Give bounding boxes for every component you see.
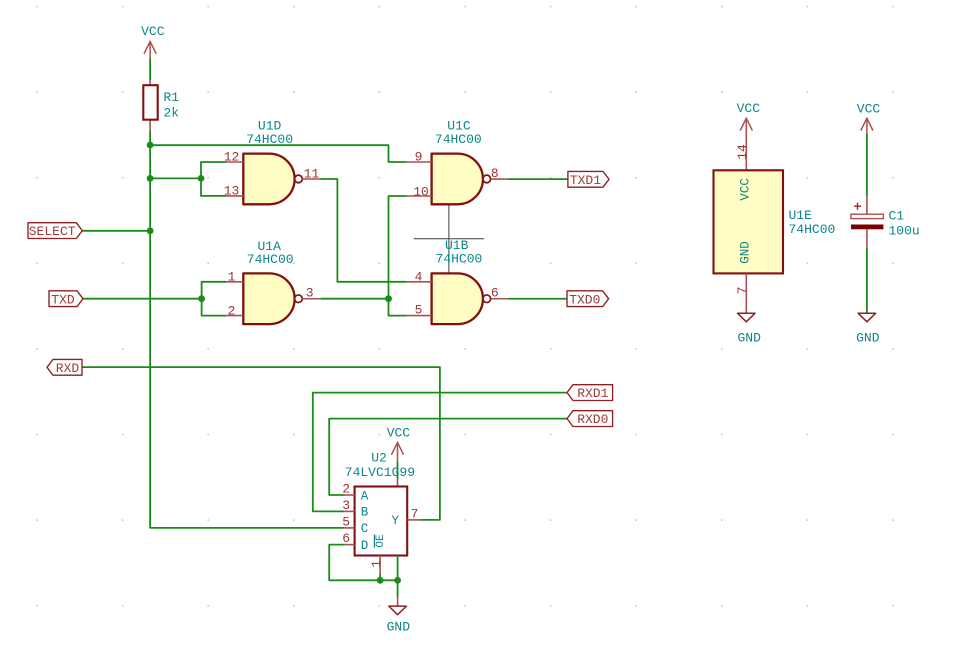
- svg-text:100u: 100u: [889, 224, 920, 239]
- junction U1D inputs tap: [147, 175, 154, 182]
- label SELECT: [28, 223, 82, 239]
- ground symbol GND (U1E): [737, 313, 761, 345]
- junction pull-up node: [147, 142, 154, 149]
- wire U1B output to TXD0: [508, 298, 567, 300]
- U2 pin 3 B: [342, 498, 369, 520]
- U1B pin 5: [406, 303, 431, 318]
- junction TXD: [198, 295, 205, 302]
- svg-text:1: 1: [369, 560, 384, 568]
- wire U1D output to U1B pin 4: [321, 179, 406, 282]
- svg-text:7: 7: [411, 507, 419, 522]
- svg-text:A: A: [361, 489, 369, 503]
- U1D pin 13: [224, 184, 244, 199]
- U1A pin 3 output: [302, 286, 320, 301]
- U2 OE pin name: [374, 534, 387, 548]
- U1E pin 14: [735, 127, 750, 170]
- svg-text:GND: GND: [739, 241, 753, 264]
- svg-text:9: 9: [415, 150, 423, 165]
- wire RXD1 to U2 pin B: [313, 393, 567, 512]
- svg-text:10: 10: [413, 184, 429, 199]
- nand gate U1B body: [432, 273, 483, 324]
- svg-text:C: C: [361, 522, 369, 536]
- svg-text:11: 11: [304, 167, 320, 182]
- svg-text:4: 4: [415, 270, 423, 285]
- wire U1A pins 1-2 bracket: [202, 282, 226, 316]
- svg-text:12: 12: [224, 150, 240, 165]
- junction SELECT tap: [147, 227, 154, 234]
- svg-text:RXD: RXD: [56, 361, 80, 376]
- U1C pin 10: [406, 184, 431, 199]
- junction ground rail: [394, 577, 401, 584]
- svg-text:74HC00: 74HC00: [246, 132, 293, 147]
- power symbol VCC (U2): [387, 426, 411, 462]
- svg-text:VCC: VCC: [141, 24, 165, 39]
- svg-text:2k: 2k: [163, 106, 179, 121]
- wire VCC to R1: [149, 59, 151, 80]
- svg-text:VCC: VCC: [387, 426, 411, 441]
- label RXD: [47, 359, 82, 375]
- capacitor C1: [851, 196, 883, 247]
- svg-text:VCC: VCC: [857, 101, 881, 116]
- wire RXD0 to U2 pin A: [329, 419, 567, 495]
- svg-text:TXD1: TXD1: [570, 173, 601, 188]
- svg-text:RXD1: RXD1: [577, 386, 608, 401]
- label TXD: [49, 291, 83, 307]
- svg-text:VCC: VCC: [737, 101, 761, 116]
- U1C pin 9: [406, 150, 431, 165]
- U2 pin 7 Y output: [392, 507, 422, 529]
- svg-text:6: 6: [491, 286, 499, 301]
- U1B pin 4: [406, 270, 431, 285]
- U1D pin 11 output: [302, 167, 321, 182]
- wire pull-up to U1C pin 9: [150, 145, 406, 162]
- U2 pin 5 C: [342, 515, 368, 537]
- svg-text:7: 7: [735, 286, 750, 294]
- svg-text:R1: R1: [163, 90, 179, 105]
- junction U1D bracket: [198, 175, 205, 182]
- junction pin1 ground: [377, 577, 384, 584]
- svg-text:GND: GND: [856, 331, 880, 346]
- nand gate U1D body: [243, 154, 294, 205]
- U1C pin 8 output: [491, 166, 508, 181]
- svg-text:RXD0: RXD0: [577, 412, 608, 427]
- svg-text:OE: OE: [375, 534, 387, 548]
- svg-text:74LVC1G99: 74LVC1G99: [345, 465, 415, 480]
- wire U1C output to TXD1: [508, 178, 568, 180]
- svg-text:3: 3: [306, 286, 314, 301]
- U2 pin 6 D: [342, 531, 368, 553]
- svg-text:GND: GND: [387, 620, 411, 635]
- svg-text:TXD: TXD: [51, 292, 75, 307]
- nand gate U1A body: [243, 273, 294, 324]
- power unit U1E body: [714, 170, 784, 273]
- ground symbol GND (U2): [387, 597, 411, 634]
- wire VCC to C1: [866, 134, 868, 196]
- crosshair cursor: [414, 205, 484, 274]
- U1A pin 1: [226, 270, 243, 285]
- wire R1 to pull-up node: [149, 131, 151, 145]
- U2 VCC pin: [397, 479, 399, 487]
- svg-text:5: 5: [415, 303, 423, 318]
- svg-text:14: 14: [735, 144, 750, 160]
- svg-text:74HC00: 74HC00: [789, 222, 836, 237]
- svg-text:C1: C1: [889, 208, 905, 223]
- power symbol VCC (C1): [857, 101, 881, 134]
- ground symbol GND (C1): [856, 313, 880, 345]
- label RXD1: [567, 385, 613, 401]
- nand gate U1C body: [432, 154, 483, 205]
- svg-text:3: 3: [342, 498, 350, 513]
- U1A pin 2: [226, 303, 243, 318]
- U2 pin 1 ground: [369, 556, 384, 575]
- svg-text:74HC00: 74HC00: [435, 251, 482, 266]
- svg-text:VCC: VCC: [739, 178, 753, 201]
- svg-text:5: 5: [342, 515, 350, 530]
- wire U2 pin D loop to ground: [329, 545, 397, 581]
- svg-text:U2: U2: [371, 451, 387, 466]
- wire U1A output to junction: [321, 298, 389, 300]
- svg-text:Y: Y: [392, 514, 400, 528]
- wire RXD to U2 pin Y: [82, 367, 440, 520]
- U1E pin 7: [735, 273, 750, 313]
- label TXD0: [567, 291, 609, 307]
- wire U1D pins 12-13 bracket: [201, 162, 226, 196]
- svg-text:2: 2: [228, 303, 236, 318]
- wire VCC to U2: [397, 462, 399, 479]
- svg-text:GND: GND: [737, 331, 761, 346]
- svg-text:U1E: U1E: [789, 208, 813, 223]
- svg-text:TXD0: TXD0: [569, 292, 600, 307]
- svg-text:2: 2: [342, 482, 350, 497]
- svg-text:13: 13: [224, 184, 240, 199]
- U2 pin 2 A: [342, 482, 369, 504]
- wire pin1 to ground rail: [379, 575, 381, 581]
- power symbol VCC (pull-up): [141, 24, 165, 59]
- label RXD0: [567, 411, 613, 427]
- power symbol VCC (U1E): [737, 101, 761, 130]
- svg-text:74HC00: 74HC00: [435, 132, 482, 147]
- svg-text:D: D: [361, 539, 369, 553]
- label TXD1: [568, 171, 609, 187]
- svg-text:SELECT: SELECT: [29, 224, 76, 239]
- svg-text:B: B: [361, 506, 369, 520]
- svg-text:1: 1: [228, 270, 236, 285]
- svg-text:74HC00: 74HC00: [247, 252, 294, 267]
- wire C1 to GND: [866, 247, 868, 313]
- resistor R1: [143, 80, 157, 131]
- wire TXD to U1A bracket: [83, 298, 202, 300]
- svg-text:8: 8: [491, 166, 499, 181]
- wire to U1D input bracket: [150, 177, 201, 179]
- junction U1A output node: [385, 295, 392, 302]
- U1D pin 12: [224, 150, 244, 165]
- U1B pin 6 output: [491, 286, 508, 301]
- multiplexer U2 body: [355, 487, 408, 556]
- wire node to U1C pin 10 and U1B pin 5: [389, 196, 407, 316]
- wire pull-up vertical bus to U2 pin C: [150, 145, 344, 528]
- wire SELECT to bus: [82, 230, 150, 232]
- wire U2 ground pin down: [397, 556, 399, 598]
